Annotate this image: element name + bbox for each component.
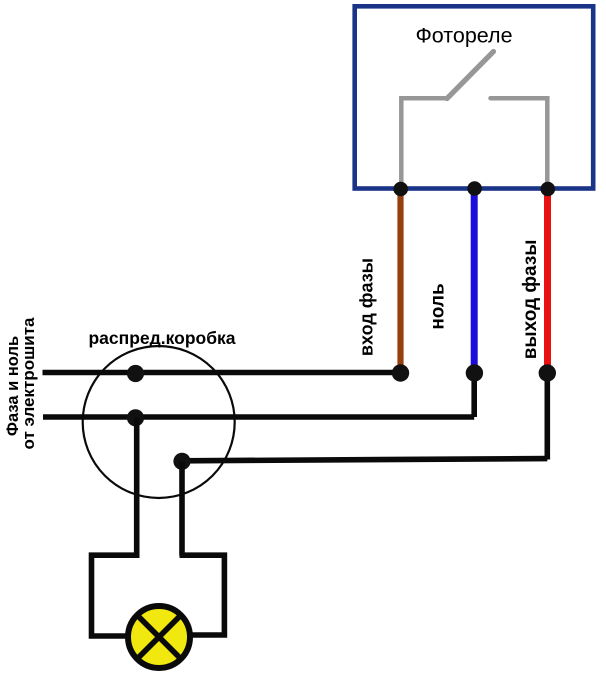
node junction B [127,409,144,426]
wire A phase feed horizontal [43,370,401,376]
node junction C [173,453,190,470]
svg-text:распред.коробка: распред.коробка [88,328,235,348]
lamp cross stroke 2 [137,615,182,660]
wire B vertical riser to blue [471,373,477,418]
svg-text:вход фазы: вход фазы [357,258,377,356]
svg-text:ноль: ноль [428,283,449,329]
svg-text:Фотореле: Фотореле [415,24,512,48]
node bottom blue [466,364,483,381]
wire lamp left drop [134,418,140,556]
photorelay box U1 [355,6,594,188]
switch S1 left pin [401,98,448,186]
junction box circle [83,346,235,498]
wire lamp loop left [92,555,140,636]
node bottom brown [392,364,409,381]
lamp L1 [128,606,190,668]
wire red (выход фазы) [544,190,551,371]
node bottom red [539,364,556,381]
wire C vertical riser to red [544,373,550,460]
svg-text:от электрошита: от электрошита [19,317,38,450]
lamp cross stroke 1 [137,615,182,660]
wire lamp right drop [179,461,185,555]
wire C lamp phase horizontal [182,459,547,461]
wire lamp loop right [180,555,225,635]
svg-text:выход фазы: выход фазы [520,240,541,360]
wire blue (ноль) [471,190,478,371]
node terminal 2 [467,181,482,196]
node junction A [127,365,144,382]
wire brown (вход фазы) [397,190,403,371]
switch S1 blade [447,52,494,99]
wire B neutral horizontal [43,414,474,420]
node terminal 3 [541,182,556,197]
switch S1 right pin [491,98,548,186]
node terminal 1 [393,182,408,197]
